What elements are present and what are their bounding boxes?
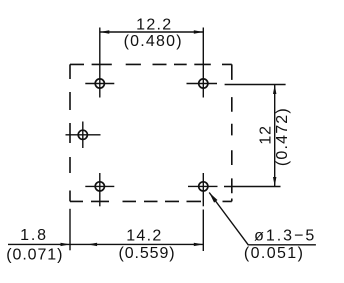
relay outline (dashed) bottom edge xyxy=(70,200,232,202)
svg-text:1.8: 1.8 xyxy=(20,227,48,244)
extension line for 12 top right xyxy=(225,84,286,86)
arrowhead 14.2 right (points right at x=203.3) xyxy=(194,243,204,246)
svg-text:(0.051): (0.051) xyxy=(244,245,305,262)
arrowhead 12.2 left (points left) xyxy=(100,30,110,33)
hole pad bottom-right circle xyxy=(199,182,208,191)
arrowhead 12 top (points up) xyxy=(273,85,276,95)
svg-text:14.2: 14.2 xyxy=(126,228,162,245)
arrowhead 12 bottom (points down) xyxy=(273,177,276,187)
svg-text:12: 12 xyxy=(257,125,274,145)
hole pad top-right centerlines xyxy=(187,83,218,85)
arrowhead 1.8 (points right at x=70) xyxy=(61,243,71,246)
arrowhead 12.2 right (points right) xyxy=(194,30,204,33)
svg-text:(0.472): (0.472) xyxy=(274,107,291,166)
dimension line 1.8 and 14.2 bottom xyxy=(8,243,203,245)
svg-text:(0.559): (0.559) xyxy=(119,245,176,262)
arrowhead leader (points up-left at hole) xyxy=(209,193,217,203)
hole pad top-right circle xyxy=(199,79,208,88)
extension line for 14.2 left (x=70) xyxy=(69,209,71,251)
leader line to hole diameter callout xyxy=(209,193,316,245)
hole pad top-left circle xyxy=(95,79,104,88)
hole pad bottom-left centerlines xyxy=(85,185,114,187)
extension line for 12 bottom right xyxy=(224,186,281,188)
svg-text:12.2: 12.2 xyxy=(136,17,172,34)
svg-text:ø1.3−5: ø1.3−5 xyxy=(254,228,316,245)
dimension line 12 right xyxy=(274,85,276,187)
hole pad middle-left circle xyxy=(78,130,87,139)
hole pad bottom-left circle xyxy=(95,182,104,191)
hole pad bottom-right centerlines xyxy=(188,185,218,187)
svg-text:(0.071): (0.071) xyxy=(6,247,63,264)
dimension line 12.2 top xyxy=(100,31,204,33)
arrowhead 14.2 left (points left at x=87.6) xyxy=(88,243,98,246)
hole pad middle-left centerlines xyxy=(66,134,101,136)
relay outline (dashed) right edge xyxy=(231,64,233,201)
extension line for 14.2 right (x=203.3) xyxy=(202,210,204,252)
svg-text:(0.480): (0.480) xyxy=(124,33,183,50)
relay outline (dashed) top edge xyxy=(70,63,232,65)
hole pad top-left centerlines xyxy=(85,83,114,85)
relay outline (dashed) left edge xyxy=(69,64,71,201)
